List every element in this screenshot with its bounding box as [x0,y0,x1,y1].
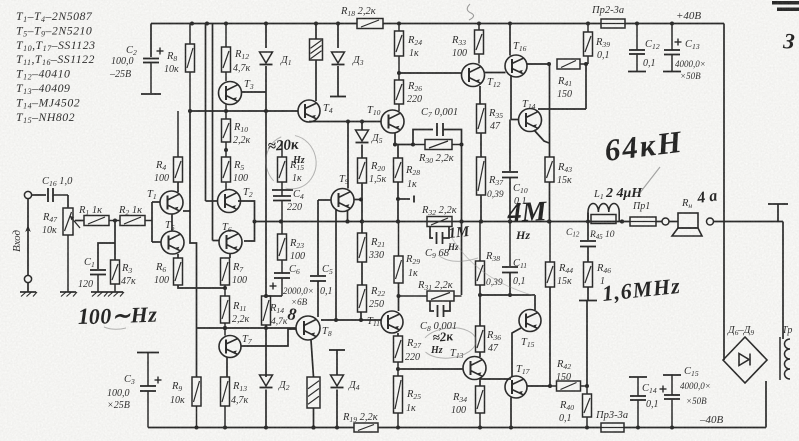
resistor R38 [476,222,485,286]
wire right border vertical [723,24,725,361]
wire R45 node lead [587,213,589,222]
transistor T10 [381,110,404,133]
resistor R26 [395,80,404,111]
wire D1 lead [265,24,267,49]
transistor T15 [519,310,541,332]
capacitor C4 [273,182,291,222]
resistor R6 [174,258,183,285]
transistor T6 [219,231,242,254]
wire R14 to D2 [265,325,267,377]
wire T16 collector [509,24,511,56]
fuse Пр1 [630,217,656,226]
node rail junctions [190,22,194,26]
wire R43 to bus [549,182,551,222]
diode Д2 [260,375,273,388]
wire base tie T1 T5 [151,202,153,221]
fuse Пр3 [601,423,624,432]
capacitor C4 top bar [272,189,293,191]
wire to R30 node [395,144,413,146]
wire C2 lead [150,24,152,58]
resistor R20 [358,158,367,183]
scan noise overlay [0,0,1,1]
resistor R3 [111,260,120,292]
capacitor C15 [660,375,681,428]
wire input to C16 [32,194,46,196]
resistor R22 [358,285,367,312]
capacitor C9 below R32 [430,227,433,238]
wire T9 base [318,199,331,201]
capacitor C12b series [587,222,589,241]
pot arrow R47 [70,216,80,228]
resistor R31 [399,291,462,301]
resistor R5 [222,157,231,190]
wire R28 bottom stub [397,182,399,222]
wire R47 wiper to R1 [75,220,84,222]
resistor R14 [262,296,271,325]
transistor T3 [219,82,242,105]
resistor R44 [546,222,555,288]
wire C6 to R14 [266,295,282,297]
wire D4 top bar [329,349,345,351]
capacitor C13 [664,24,682,72]
wire D3 bottom [337,66,339,96]
transistor T11 [381,311,403,333]
resistor R7 [221,258,230,285]
resistor R37 [477,157,486,195]
transformer Tr [785,339,791,379]
capacitor C1 [90,270,106,292]
wire T17 bottom to rail [510,398,512,428]
capacitor C14 top bar [629,376,647,378]
wire T2 emitter link to T6 [238,201,255,241]
resistor R25 [394,362,403,428]
resistor R42 [550,381,587,391]
transistor T2 [218,190,241,213]
resistor R2 [120,216,152,226]
wire C16 to R47 [67,195,69,208]
resistor R15 [278,141,287,182]
resistor R41 [557,59,586,69]
capacitor C2 [143,48,164,94]
wire -40V bottom rail [148,427,354,429]
wire T8 emitter down [311,340,314,377]
speaker Rn [672,213,702,236]
resistor R1 [84,216,120,226]
wire T10 emitter down [394,133,396,145]
bridge rectifier D6-D9 [723,337,767,383]
wire R35 to R37 [480,133,482,157]
resistor R13 [221,377,230,428]
wire to ground [27,283,29,292]
wire T11 to R27 [397,333,399,336]
diode Д3 [332,52,345,65]
capacitor C8 below R31 [430,301,434,311]
wire transformer feed [782,222,784,340]
wire R41 left node down to R43 [549,64,551,157]
resistor R24 [395,24,404,81]
wire T6 to R7 [229,254,231,259]
wire output stub T [777,204,779,222]
wire T17 emitter [527,385,550,387]
wire T7 to R13 [226,358,228,378]
wire to T12 base [399,72,461,74]
capacitor C7 loop [413,130,433,145]
capacitor C11 [502,267,518,273]
transistor T17 [505,376,527,398]
wire long tail vertical B [212,24,214,241]
wire R6 to R7 junction [178,285,225,288]
transistor T7 [219,336,241,358]
wire long tail vertical A [205,24,207,202]
pencil arc near 1M annotation [438,255,478,261]
resistor R32 [427,217,452,227]
wire R21 to R22 [361,262,363,285]
node rail [195,426,199,430]
wire D3 lead [337,24,339,49]
transistor T8 [296,316,320,340]
wire T14 collector line [538,108,586,110]
resistor R9 [192,377,201,428]
capacitor C16 [48,188,68,202]
wire T9 collector to bus [347,210,349,222]
resistor R40 [583,386,592,428]
capacitor C12 [629,24,645,72]
resistor R28 [394,158,403,182]
wire R44 column down [549,287,551,386]
wire R29 to T11 [398,283,400,311]
pencil stroke under 64kH [639,167,660,194]
pencil underline 100Hz [104,327,126,329]
wire output bus [255,221,631,223]
transistor T12 [462,64,485,87]
wire R9 column [196,328,198,377]
resistor R18 [357,19,383,29]
wire D2 to rail [265,390,267,428]
wire bridge to rail [765,381,767,428]
wire R41 node down [585,64,587,109]
pencil swirl around R15 annotation [261,130,321,193]
resistor R35 [477,104,486,133]
resistor R11 [221,285,230,336]
capacitor C10 [502,172,518,178]
fuse Пр2 [601,19,625,28]
wire T14 emitter [534,130,549,143]
wire to T4 collector [315,60,317,101]
wire hatch to rail [313,408,315,428]
wire T9 base down to C5 [317,200,319,275]
wire T5 emitter to R6 [177,254,179,258]
wire T16 down to T14 base [510,75,512,120]
resistor R23 [278,222,287,261]
wire R46 bottom / bar [587,287,589,300]
diode Д4 [331,375,344,388]
wire T9 top to T4 line [347,122,349,189]
pencil curve through C11 region [452,238,535,296]
wire T13 emitter [479,379,481,386]
wire D4 to rail [336,390,338,428]
wire T9 to T11 base line [335,209,337,320]
ground R47 [60,292,77,297]
wire T3/T4 base line [190,110,298,112]
wire lower bias line [197,327,297,329]
resistor R46 [584,262,593,287]
wire C1 branch [98,243,115,269]
wire D1 to T3 base and down [265,66,267,296]
wire C5 to T8 collector [317,281,319,317]
node bus junctions [279,220,283,224]
transistor T16 [505,55,527,77]
resistor R17 (hatched) [310,39,323,60]
resistor R29 [394,222,403,284]
wire T14 base node down to C10 [509,120,511,172]
wire T15 emitter to T17 base [512,328,521,377]
diode D5 [361,122,363,131]
ground input [20,292,37,297]
diode Д5 [356,130,369,143]
capacitor C5 [310,276,326,281]
wire R20 to R21 through bus [361,183,363,233]
wire +40V top rail [151,23,357,25]
wire T16 emitter to R41 [527,63,549,65]
resistor R34 [476,386,485,428]
terminal output left [662,218,669,225]
resistor R27 [394,336,403,362]
transistor T13 [463,357,486,380]
capacitor C9 [437,232,443,244]
terminal input lower [24,275,31,282]
wire input vertical with arrow [27,199,29,276]
resistor R45 [591,215,616,224]
corner scan marks [772,1,799,5]
wire T10 em to R28 [395,144,398,146]
wire T9 emitter stub [354,199,361,201]
resistor R43 [545,157,554,182]
terminal input upper [24,191,31,198]
wire C7 node down [461,145,463,296]
capacitor C15 top bar [663,374,681,376]
resistor R30 [413,140,462,150]
wire R37 to bus [480,195,482,222]
wire R36 to T13 [479,352,481,357]
wire node line to T15 [480,294,535,296]
C2 bottom bar [141,93,161,95]
resistor R4 [174,111,183,182]
capacitor C7 [437,123,443,136]
wire T1-T5 link [171,214,173,231]
wire node to R3/C1 [114,221,116,261]
resistor hatched lower [307,377,320,408]
wire T12 to T16 base [484,72,506,74]
wire R38 node [479,285,481,326]
resistor R33 [475,24,484,64]
transistor T4 [298,100,320,122]
wire R22 to T11 base [360,312,362,320]
wire T8 to T11 base line [321,319,381,321]
transistor T9 [331,189,354,212]
resistor R36 [476,326,485,352]
resistor R12 [222,24,231,82]
terminal output right [707,218,714,225]
wire T12 emitter to R35 [479,86,481,104]
resistor R39 [584,24,593,65]
capacitor C8 [438,305,444,317]
wire C10 to bus [509,178,511,222]
capacitor C14 [630,377,646,428]
diode Д1 [260,52,273,65]
wire T4 emitter to T10 base [308,121,310,124]
resistor R10 [222,105,231,158]
resistor R21 [358,233,367,262]
capacitor C3 top bar [137,352,159,354]
transistor T1 [160,191,183,214]
capacitor C11 [509,222,511,267]
wire left column down to R9 [190,111,197,328]
capacitor C6 [270,260,291,296]
inductor L1 [588,203,619,221]
ground R3 [107,292,124,297]
transistor T5 [161,231,184,254]
pencil flourish top rail [467,4,473,20]
resistor R19 [354,423,378,432]
capacitor C3 [140,353,162,428]
wire T13 base line [398,368,463,370]
wire T3 base to D1 string [242,91,267,93]
wire hatch resistor lead [315,24,317,40]
resistor R47 (volume pot) [63,208,73,292]
resistor R8 [186,24,195,112]
transistor T14 [519,109,542,132]
ground C1 [91,292,108,297]
wire T1 emitter to R4 [177,182,179,192]
wire D5 to R20 [361,145,363,159]
pencil swirl around 2k annotation [421,325,478,360]
wire C11 to node [509,273,511,296]
wire T1 collector down [183,210,190,212]
wire T7 collector to T8 base [241,329,296,346]
